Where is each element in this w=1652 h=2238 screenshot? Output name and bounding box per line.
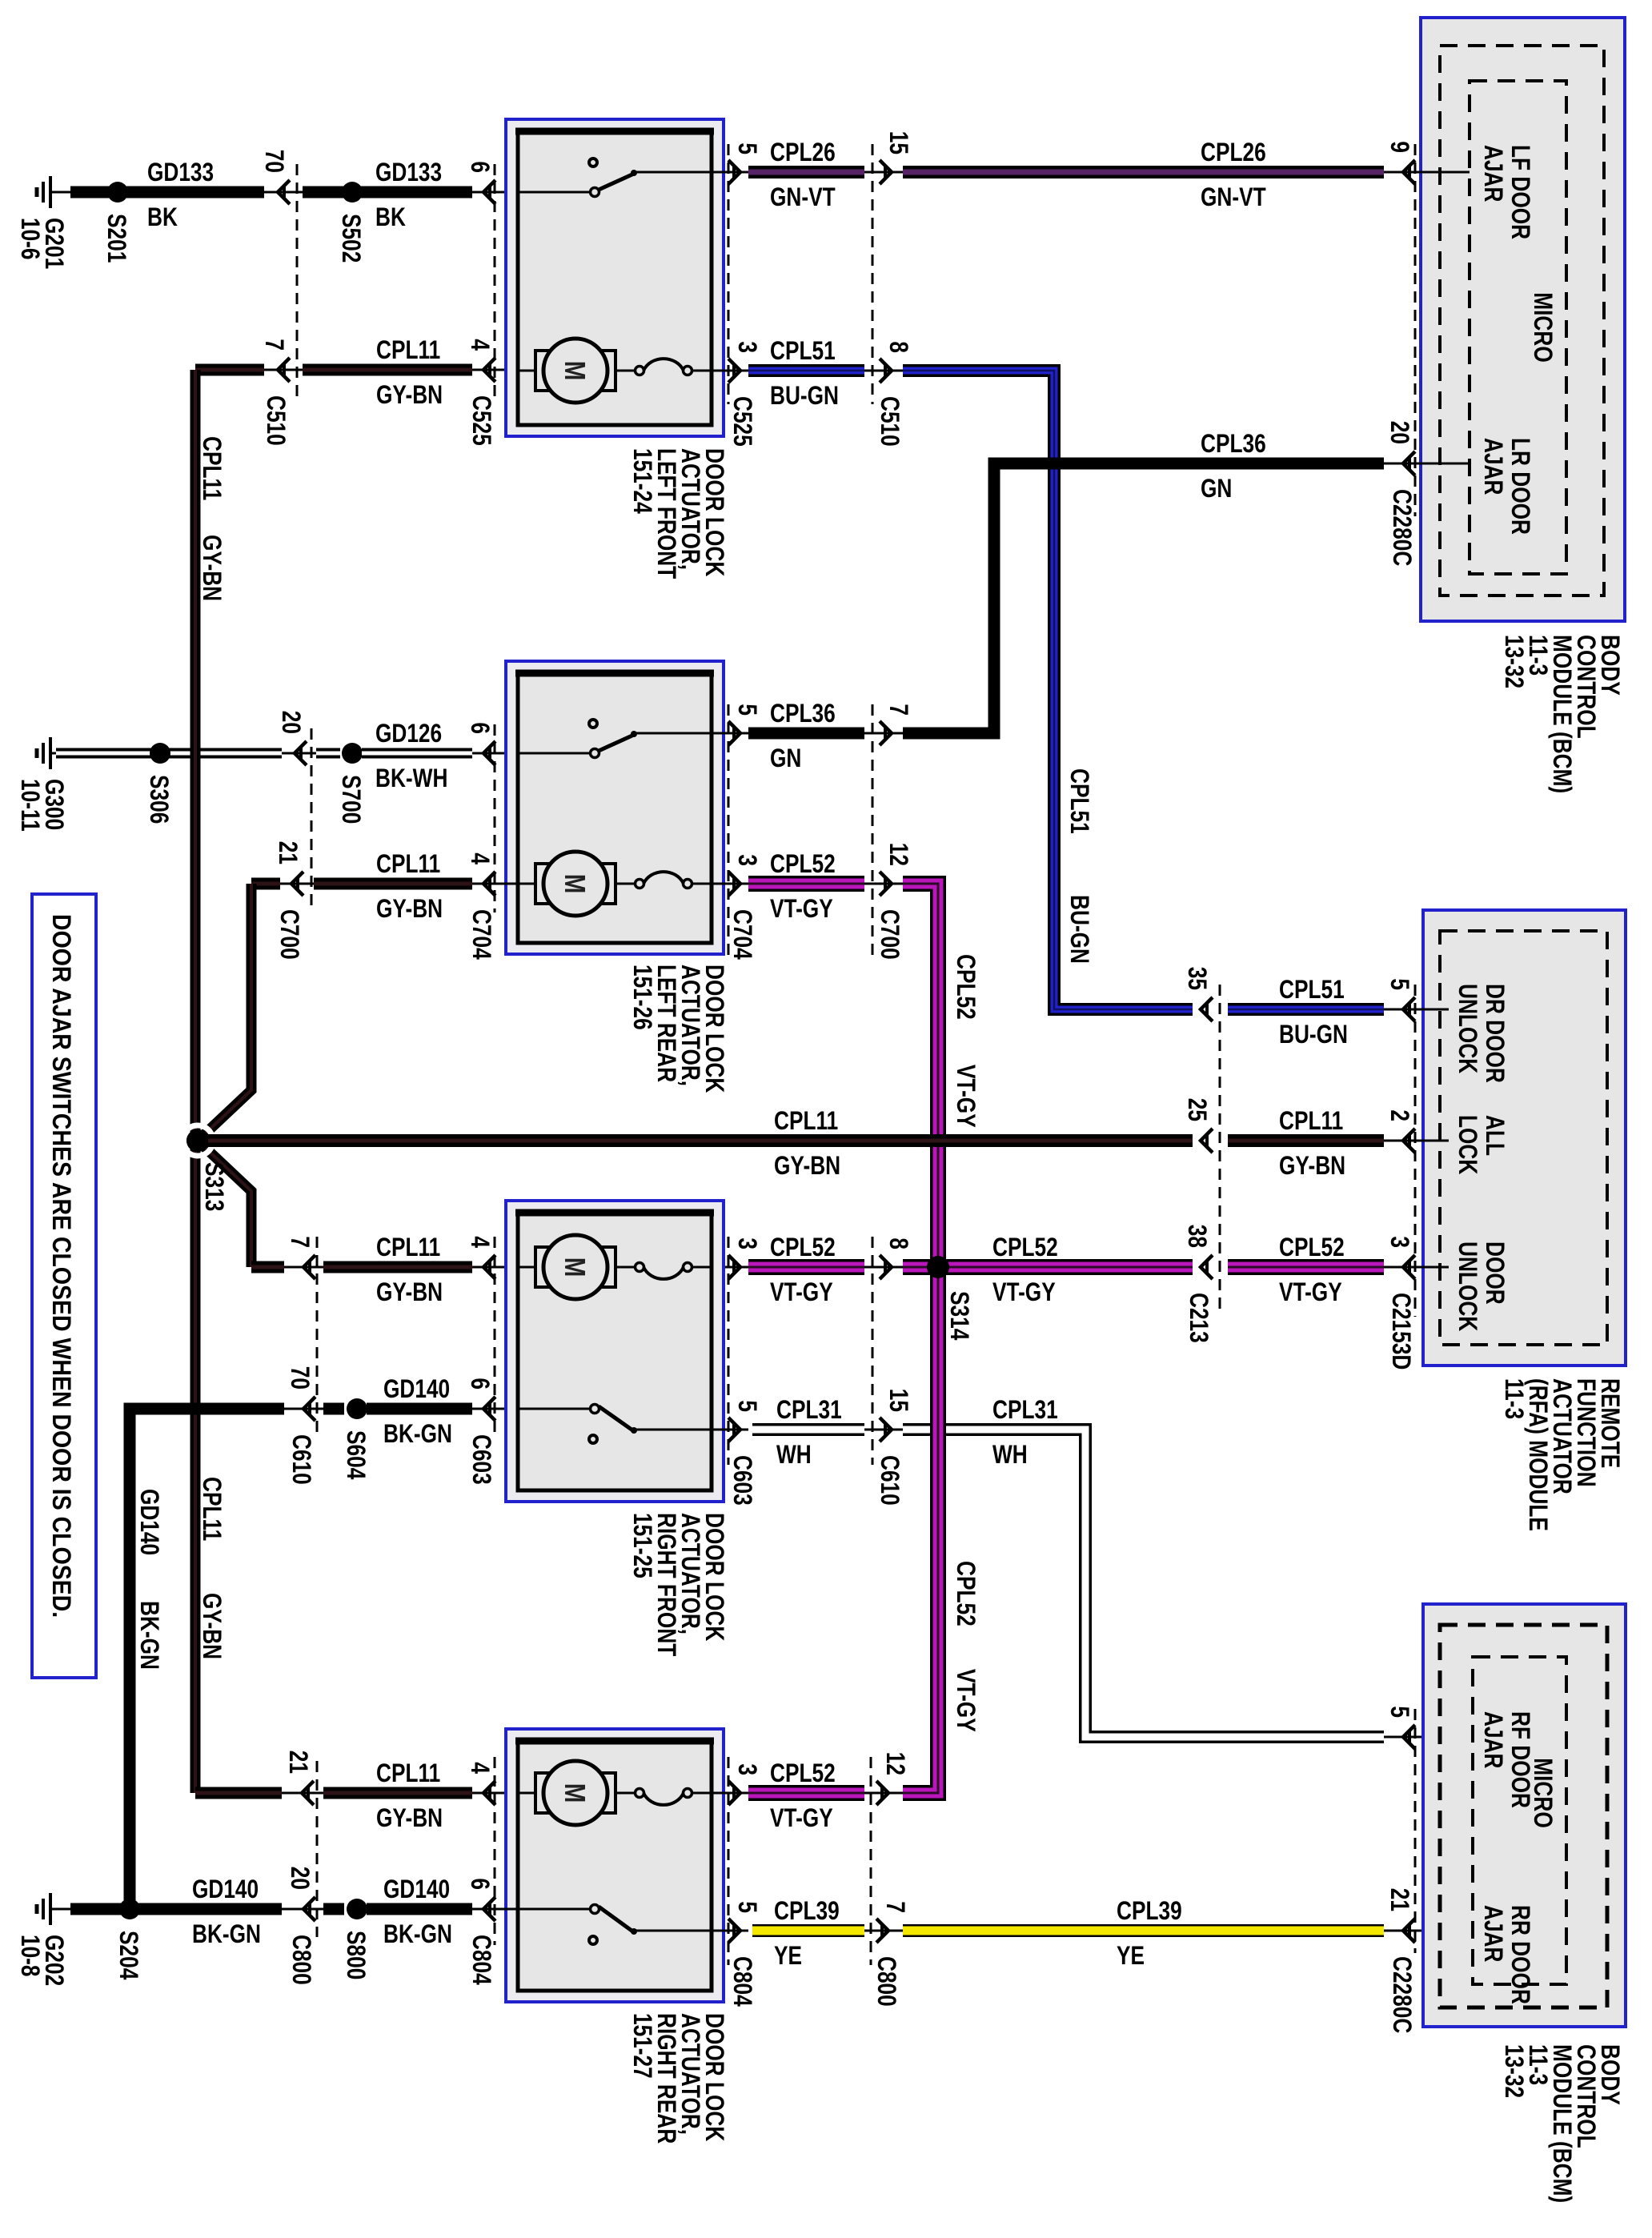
svg-text:3: 3 [733, 1237, 762, 1249]
wire GD140 BK-GN stub (RR) [323, 1903, 344, 1915]
connector C610 dashed line (left) [316, 1237, 319, 1437]
connector pin 15 C510 [880, 160, 892, 184]
svg-text:GN-VT: GN-VT [1201, 182, 1266, 211]
svg-text:BK-GN: BK-GN [192, 1919, 261, 1948]
wire CPL11 branch down to right front [198, 1141, 251, 1267]
splice S502 [342, 182, 363, 203]
wire CPL11 GY-BN to LR motor [314, 878, 472, 890]
connector pin 21 C800 [302, 1781, 314, 1805]
connector pin 6 C804 [483, 1897, 495, 1921]
svg-text:BK-WH: BK-WH [375, 764, 447, 792]
wire CPL51 BU-GN segment 1 [748, 364, 864, 377]
svg-text:5: 5 [733, 1400, 762, 1412]
svg-text:CPL36: CPL36 [770, 699, 836, 728]
splice S204 [119, 1899, 140, 1919]
svg-text:DOOR AJAR SWITCHES ARE CLOSED: DOOR AJAR SWITCHES ARE CLOSED WHEN DOOR … [47, 914, 76, 1618]
door ajar switch (left front) [518, 191, 591, 194]
door ajar switch (left rear) [518, 752, 591, 755]
wire CPL36 GN segment 1 [748, 728, 864, 740]
connector C804 dashed line (left) [494, 1757, 496, 1945]
wire CPL11 GY-BN branch to left rear (corner) [251, 878, 280, 890]
svg-text:S314: S314 [945, 1291, 974, 1340]
svg-text:8: 8 [884, 1237, 913, 1249]
svg-text:C525: C525 [728, 396, 757, 447]
svg-text:LR DOOR: LR DOOR [1506, 438, 1535, 535]
svg-text:VT-GY: VT-GY [770, 1803, 833, 1832]
svg-text:VT-GY: VT-GY [1279, 1277, 1342, 1306]
svg-text:4: 4 [466, 1236, 495, 1248]
connector C213 dashed line [1219, 985, 1221, 1313]
splice S700 [342, 743, 363, 764]
svg-text:S700: S700 [337, 775, 366, 824]
connector pin 8 C510 [880, 359, 892, 383]
svg-text:5: 5 [1385, 978, 1414, 990]
connector C2280C dashed line (BCM top) [1414, 144, 1417, 516]
svg-text:GY-BN: GY-BN [376, 1277, 443, 1306]
connector pin 12 C800 [876, 1781, 888, 1805]
svg-text:S604: S604 [342, 1430, 371, 1479]
BCM pin line LF DOOR AJAR [1403, 171, 1470, 174]
svg-text:2: 2 [1385, 1109, 1414, 1121]
svg-text:GN: GN [1201, 474, 1232, 503]
wire CPL52 VT-GY from right front motor [712, 1266, 748, 1269]
svg-text:C704: C704 [728, 909, 757, 960]
svg-text:21: 21 [284, 1751, 313, 1774]
svg-text:15: 15 [884, 1389, 913, 1412]
svg-text:BU-GN: BU-GN [1065, 895, 1094, 964]
svg-text:VT-GY: VT-GY [952, 1065, 980, 1128]
svg-text:CPL52: CPL52 [952, 1561, 980, 1626]
connector pin 25 C213 [1201, 1129, 1213, 1153]
svg-text:AJAR: AJAR [1479, 1711, 1508, 1768]
svg-text:7: 7 [260, 339, 289, 351]
RFA pin 3 connector [1403, 1255, 1415, 1279]
wire GD140 BK-GN to RR switch [367, 1903, 472, 1915]
splice S201 [107, 182, 128, 203]
wire CPL11 GY-BN main run to RFA [208, 1134, 1193, 1147]
connector pin 70 C510 [278, 180, 290, 204]
svg-text:BK-GN: BK-GN [383, 1419, 452, 1448]
svg-text:C510: C510 [262, 395, 291, 446]
connector pin 8 C610 [880, 1255, 892, 1279]
wire GD126 BK-WH stub [316, 748, 340, 759]
svg-text:WH: WH [776, 1440, 812, 1469]
connector C704 dashed line (right) [728, 704, 730, 957]
svg-text:GN: GN [770, 744, 801, 772]
wire CPL31 WH L-run to BCM bottom [903, 1430, 1384, 1737]
wire GD140 BK-GN from ground [70, 1903, 282, 1915]
svg-text:M: M [559, 1257, 591, 1277]
svg-text:DOOR: DOOR [1481, 1241, 1510, 1305]
svg-text:BU-GN: BU-GN [1279, 1020, 1348, 1049]
svg-text:DR DOOR: DR DOOR [1481, 984, 1510, 1083]
wire CPL26 GN-VT segment 2 [903, 166, 1384, 178]
svg-text:CPL26: CPL26 [770, 138, 836, 166]
svg-text:BU-GN: BU-GN [770, 381, 839, 410]
wire CPL39 YE to BCM2 [903, 1924, 1384, 1937]
door lock actuator right rear box [506, 1729, 724, 2002]
svg-text:BK-GN: BK-GN [383, 1919, 452, 1948]
svg-text:7: 7 [881, 1901, 910, 1913]
svg-text:S800: S800 [342, 1931, 371, 1979]
BCM pin 9 connector [1403, 160, 1415, 184]
svg-text:C2280C: C2280C [1388, 1956, 1417, 2033]
wire GD133 BK segment 2 [303, 186, 472, 199]
svg-text:5: 5 [1385, 1706, 1414, 1718]
svg-text:LF DOOR: LF DOOR [1506, 145, 1535, 239]
svg-text:C800: C800 [872, 1956, 901, 2007]
svg-text:20: 20 [286, 1867, 315, 1890]
svg-text:4: 4 [466, 852, 495, 864]
svg-text:6: 6 [466, 1378, 495, 1390]
svg-text:GD140: GD140 [135, 1489, 164, 1555]
svg-text:151-26: 151-26 [628, 965, 657, 1030]
svg-text:6: 6 [466, 161, 495, 173]
connector pin 4 C525 [483, 358, 495, 382]
connector C603 dashed line (right) [728, 1237, 730, 1465]
svg-text:CPL11: CPL11 [376, 1233, 440, 1261]
lock motor M (right rear) [518, 1792, 535, 1795]
door lock actuator left rear box [506, 661, 724, 954]
connector pin 5 C525 [712, 171, 748, 174]
svg-text:CPL39: CPL39 [774, 1896, 840, 1925]
svg-text:13-32: 13-32 [1500, 635, 1529, 688]
svg-text:C213: C213 [1185, 1293, 1213, 1343]
wire CPL52 VT-GY from RR motor [712, 1792, 748, 1795]
svg-text:RR DOOR: RR DOOR [1506, 1905, 1535, 2004]
connector C510 dashed line (left) [296, 164, 299, 400]
svg-text:6: 6 [466, 722, 495, 734]
wire G300 ground BK-WH double line segment [56, 748, 282, 759]
connector pin 7 C510 [278, 358, 290, 382]
lock motor M (left rear) [518, 883, 535, 885]
svg-text:C700: C700 [876, 909, 904, 960]
wire GD140 BK-GN to RF switch [367, 1403, 472, 1415]
wire CPL11 GY-BN to RF motor [323, 1261, 472, 1273]
svg-text:C610: C610 [876, 1455, 904, 1506]
svg-text:GY-BN: GY-BN [1279, 1151, 1345, 1180]
svg-text:C2280C: C2280C [1388, 489, 1417, 566]
svg-text:7: 7 [884, 704, 913, 716]
wire CPL52 VT-GY to RFA module [1228, 1259, 1384, 1275]
svg-text:21: 21 [1385, 1888, 1414, 1911]
MICRO inner dashed box (BCM top) [1470, 81, 1566, 574]
connector pin 12 C700 [880, 872, 892, 896]
svg-text:C804: C804 [467, 1935, 496, 1985]
wire CPL51 BU-GN to RFA [1228, 1003, 1384, 1016]
svg-text:8: 8 [884, 341, 913, 353]
svg-text:70: 70 [260, 150, 289, 173]
connector pin 6 C603 [483, 1397, 495, 1421]
splice S604 [347, 1398, 367, 1419]
svg-text:CPL52: CPL52 [770, 1759, 836, 1787]
svg-text:S306: S306 [145, 775, 174, 824]
wire CPL52 VT-GY vertical trunk [903, 884, 938, 1793]
connector pin 38 C213 [1201, 1255, 1213, 1279]
svg-text:12: 12 [881, 1752, 910, 1775]
svg-text:151-27: 151-27 [628, 2013, 657, 2079]
svg-text:C704: C704 [467, 909, 496, 960]
connector pin 5 C704 [712, 732, 748, 735]
svg-text:GD126: GD126 [375, 719, 442, 748]
svg-text:9: 9 [1385, 141, 1414, 153]
lock motor M (right front) [518, 1266, 535, 1269]
svg-text:CPL11: CPL11 [376, 849, 440, 878]
svg-text:UNLOCK: UNLOCK [1454, 1241, 1482, 1331]
svg-text:RF DOOR: RF DOOR [1506, 1711, 1535, 1808]
wire CPL39 YE from RR switch [712, 1930, 748, 1932]
svg-text:10-6: 10-6 [16, 218, 45, 260]
connector pin 3 C525 [712, 370, 748, 372]
door lock actuator left front box [506, 119, 724, 436]
svg-text:CPL52: CPL52 [770, 849, 836, 878]
svg-text:6: 6 [466, 1878, 495, 1890]
wire CPL11 GY-BN vertical trunk [190, 370, 201, 1793]
svg-text:YE: YE [1117, 1941, 1145, 1970]
svg-text:C510: C510 [876, 396, 904, 447]
wire CPL11 GY-BN corner to right rear [195, 1787, 282, 1799]
svg-text:M: M [559, 1783, 591, 1803]
svg-text:C804: C804 [728, 1956, 757, 2007]
ground G201 [50, 191, 72, 194]
svg-text:VT-GY: VT-GY [992, 1277, 1056, 1306]
svg-text:S313: S313 [200, 1162, 229, 1211]
svg-text:5: 5 [733, 1901, 762, 1913]
wire GD140 BK-GN stub [323, 1403, 344, 1415]
connector pin 6 C704 [483, 741, 495, 765]
svg-text:13-32: 13-32 [1500, 2044, 1529, 2098]
connector pin 7 C800 [876, 1919, 888, 1943]
wire CPL36 GN from LR actuator to BCM [903, 463, 999, 733]
svg-text:LOCK: LOCK [1454, 1115, 1482, 1174]
wire CPL52 VT-GY segment 1 (LR) [748, 876, 864, 892]
wire CPL11 GY-BN to RR motor [323, 1787, 472, 1799]
svg-text:35: 35 [1183, 967, 1212, 990]
svg-text:C800: C800 [287, 1935, 316, 1985]
connector C2280C dashed line (BCM2) [1414, 1709, 1417, 1953]
wire CPL11 branch up to left rear [198, 884, 251, 1141]
svg-text:70: 70 [286, 1366, 315, 1390]
svg-text:BK: BK [147, 203, 178, 231]
svg-text:21: 21 [274, 841, 303, 864]
MICRO inner dashed box (BCM bottom) [1473, 1657, 1566, 1984]
wire CPL11 GY-BN corner from main vertical [195, 364, 264, 376]
svg-text:MICRO: MICRO [1529, 292, 1558, 363]
door lock actuator right front box [506, 1201, 724, 1502]
splice S314 [927, 1256, 949, 1278]
wire CPL11 GY-BN to door lock actuator left front [303, 364, 472, 376]
connector C800 dashed line (left) [316, 1761, 319, 1937]
door ajar switch (right rear) [518, 1908, 591, 1911]
connector pin 4 C603 [483, 1255, 495, 1279]
svg-text:C700: C700 [275, 909, 304, 960]
svg-text:GN-VT: GN-VT [770, 182, 836, 211]
svg-text:CPL52: CPL52 [770, 1233, 836, 1261]
svg-text:CPL36: CPL36 [1201, 429, 1266, 458]
svg-text:UNLOCK: UNLOCK [1454, 984, 1482, 1073]
svg-text:C2153D: C2153D [1387, 1293, 1416, 1370]
svg-text:3: 3 [733, 341, 762, 353]
svg-text:CPL11: CPL11 [198, 1477, 227, 1541]
wire CPL52 VT-GY vertical trunk segment over CPL31 [930, 1365, 946, 1493]
svg-text:WH: WH [992, 1440, 1028, 1469]
svg-text:VT-GY: VT-GY [770, 894, 833, 923]
ground G202 [50, 1908, 72, 1911]
svg-text:CPL11: CPL11 [198, 436, 227, 500]
wire GD126 BK-WH to LR actuator [362, 748, 472, 759]
svg-text:38: 38 [1183, 1225, 1212, 1248]
svg-text:CPL11: CPL11 [376, 335, 440, 364]
svg-text:CPL52: CPL52 [992, 1233, 1058, 1261]
connector C525 dashed line (right) [728, 144, 730, 404]
svg-text:CPL52: CPL52 [1279, 1233, 1345, 1261]
svg-text:3: 3 [733, 1763, 762, 1775]
svg-text:ALL: ALL [1481, 1115, 1510, 1156]
connector pin 21 C700 [291, 872, 303, 896]
wire CPL31 WH from RF switch [712, 1429, 748, 1431]
wire CPL11 GY-BN to RFA module [1228, 1134, 1384, 1147]
svg-text:C525: C525 [467, 395, 496, 446]
wire CPL52 VT-GY through S314 to C213 [903, 1259, 1193, 1275]
svg-text:12: 12 [884, 843, 913, 866]
svg-text:YE: YE [774, 1941, 802, 1970]
wire CPL26 GN-VT segment 1 [748, 166, 864, 178]
svg-text:S201: S201 [102, 214, 131, 263]
splice S313 [186, 1129, 209, 1152]
wire CPL11 GY-BN branch corner to right front [251, 1261, 284, 1273]
svg-text:11-3: 11-3 [1500, 1378, 1529, 1419]
svg-text:CPL31: CPL31 [992, 1395, 1058, 1424]
svg-text:5: 5 [733, 704, 762, 716]
svg-text:AJAR: AJAR [1479, 438, 1508, 495]
remote function actuator RFA module box [1423, 910, 1626, 1366]
connector pin 6 C525 [483, 180, 495, 204]
svg-text:GY-BN: GY-BN [376, 380, 443, 409]
ground G300 [50, 752, 72, 755]
door ajar switch (right front) [518, 1408, 591, 1410]
body control module BCM box (bottom) [1423, 1604, 1626, 2027]
body control module BCM box (top) [1421, 18, 1625, 621]
note box DOOR AJAR SWITCHES ARE CLOSED WHEN DOOR IS CLOSED. [32, 894, 96, 1678]
svg-text:M: M [559, 874, 591, 894]
svg-text:CPL26: CPL26 [1201, 138, 1266, 166]
svg-text:VT-GY: VT-GY [770, 1277, 833, 1306]
connector C804 dashed line (right) [728, 1757, 730, 1965]
connector C603 dashed line (left) [494, 1237, 496, 1437]
connector C700 dashed line (left) [311, 728, 313, 912]
svg-text:GY-BN: GY-BN [198, 535, 227, 601]
connector C2153D dashed line [1414, 985, 1417, 1317]
connector C610 dashed line (right) [872, 1237, 874, 1465]
connector pin 7 C700 [880, 721, 892, 745]
svg-text:151-25: 151-25 [628, 1513, 657, 1578]
connector pin 20 C800 [303, 1897, 315, 1921]
svg-text:GD140: GD140 [383, 1374, 450, 1403]
svg-text:CPL11: CPL11 [1279, 1106, 1343, 1135]
svg-text:GY-BN: GY-BN [198, 1593, 227, 1659]
svg-text:C603: C603 [467, 1434, 496, 1485]
svg-text:4: 4 [466, 339, 495, 351]
connector pin 20 C700 [295, 741, 307, 765]
svg-text:AJAR: AJAR [1479, 145, 1508, 202]
svg-text:25: 25 [1183, 1098, 1212, 1121]
svg-text:CPL51: CPL51 [770, 336, 836, 365]
connector pin 70 C610 [303, 1397, 315, 1421]
svg-text:10-11: 10-11 [16, 779, 45, 832]
svg-text:C610: C610 [287, 1434, 316, 1485]
svg-text:AJAR: AJAR [1479, 1905, 1508, 1962]
RFA pin 2 connector [1403, 1129, 1415, 1153]
svg-text:20: 20 [1385, 421, 1414, 444]
connector pin 15 C610 [880, 1418, 892, 1442]
connector pin 35 C213 [1201, 997, 1213, 1021]
svg-text:20: 20 [277, 711, 306, 734]
svg-text:CPL39: CPL39 [1117, 1896, 1182, 1925]
splice S306 [150, 743, 170, 764]
splice S800 [347, 1899, 367, 1919]
svg-text:7: 7 [286, 1236, 315, 1248]
svg-text:CPL51: CPL51 [1279, 975, 1345, 1004]
svg-text:C603: C603 [728, 1455, 757, 1506]
wire GD140 BK-GN vertical trunk [130, 1409, 284, 1909]
connector C700 dashed line (right) [872, 704, 874, 957]
svg-text:3: 3 [1385, 1236, 1414, 1248]
svg-text:GD133: GD133 [375, 158, 442, 186]
connector pin 3 C704 [712, 883, 748, 885]
svg-text:VT-GY: VT-GY [952, 1669, 980, 1732]
connector C510 dashed line (right) [872, 144, 874, 404]
RFA pin lines [1403, 1009, 1449, 1011]
svg-text:BK: BK [375, 203, 406, 231]
wire GD133 BK segment 1 [70, 186, 264, 199]
svg-text:CPL11: CPL11 [376, 1759, 440, 1787]
connector pin 4 C804 [483, 1781, 495, 1805]
svg-text:151-24: 151-24 [628, 448, 657, 514]
svg-text:GY-BN: GY-BN [376, 1803, 443, 1832]
BCM pin 20 connector [1403, 451, 1415, 475]
svg-text:GD140: GD140 [383, 1875, 450, 1903]
svg-text:5: 5 [733, 142, 762, 154]
BCM pin line LR DOOR AJAR [1403, 463, 1470, 465]
svg-text:CPL11: CPL11 [774, 1106, 838, 1135]
svg-text:15: 15 [884, 131, 913, 154]
svg-text:S204: S204 [114, 1931, 143, 1979]
svg-text:GY-BN: GY-BN [774, 1151, 840, 1180]
svg-text:GD140: GD140 [192, 1875, 259, 1903]
lock motor M (left front) [518, 370, 535, 372]
RFA pin 5 connector [1403, 997, 1415, 1021]
connector C800 dashed line (right) [870, 1757, 872, 1965]
connector C525 dashed line (left) [494, 164, 496, 400]
svg-text:M: M [559, 361, 591, 381]
BCM2 pin 5 connector [1403, 1725, 1415, 1749]
svg-text:4: 4 [466, 1762, 495, 1774]
connector pin 4 C704 [483, 872, 495, 896]
svg-text:S502: S502 [337, 214, 366, 263]
svg-text:GD133: GD133 [147, 158, 214, 186]
svg-text:GY-BN: GY-BN [376, 894, 443, 923]
svg-text:3: 3 [733, 854, 762, 866]
svg-text:CPL31: CPL31 [776, 1395, 842, 1424]
connector C704 dashed line (left) [494, 724, 496, 912]
svg-text:10-8: 10-8 [16, 1935, 45, 1977]
svg-text:CPL51: CPL51 [1065, 768, 1094, 834]
wire CPL51 BU-GN L-run down to RFA row [903, 371, 1193, 1009]
svg-text:CPL52: CPL52 [952, 954, 980, 1020]
svg-text:BK-GN: BK-GN [135, 1601, 164, 1670]
BCM2 pin 21 connector [1403, 1919, 1415, 1943]
connector pin 7 C610 [303, 1255, 315, 1279]
